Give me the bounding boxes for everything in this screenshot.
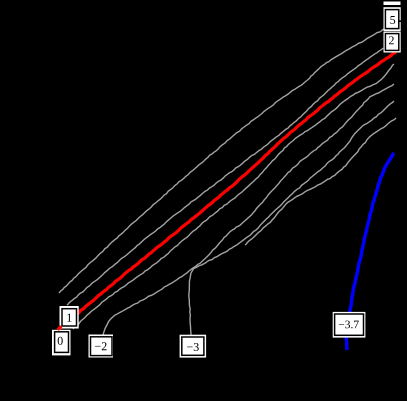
contour line level -2 (gray) <box>103 84 394 335</box>
label box 2 <box>384 32 401 53</box>
label box 1 <box>60 306 79 329</box>
contour line level 0 (gray) <box>73 64 394 329</box>
label box -3 <box>180 335 207 358</box>
contour line extra arc (gray) <box>245 118 396 245</box>
contour line level 5 (gray) <box>59 29 384 293</box>
label box -2 <box>89 335 114 358</box>
label box 0 <box>52 330 71 356</box>
red line stub over label 1 box corner <box>58 326 62 330</box>
label box -3.7 <box>333 312 366 338</box>
contour line level -3.7 (blue, thick) <box>346 153 394 350</box>
contour line level 2 (gray) <box>67 48 383 305</box>
label box 5 <box>384 7 402 31</box>
contour line level 1 (red, thick) <box>59 52 396 329</box>
clipped label box at top edge <box>384 2 401 6</box>
contour line level -3 (gray) <box>189 101 394 335</box>
